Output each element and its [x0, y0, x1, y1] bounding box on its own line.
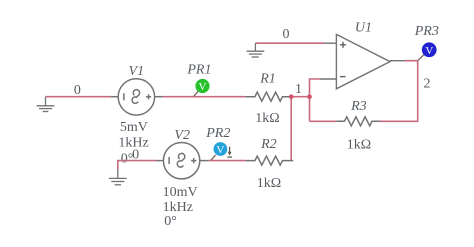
svg-text:1: 1 [295, 82, 302, 97]
svg-text:V: V [199, 81, 207, 93]
wire down to R2 [290, 97, 292, 161]
wire net 0 left: ground to V1 [46, 96, 111, 98]
svg-text:0: 0 [74, 83, 81, 98]
probe PR1 [194, 79, 210, 97]
svg-text:0°: 0° [164, 214, 177, 229]
svg-text:2: 2 [424, 76, 431, 91]
svg-text:1kΩ: 1kΩ [255, 111, 279, 126]
PR2 direction arrow [227, 147, 232, 158]
wire minus input riser and to R3 [310, 79, 337, 121]
resistor R1 [245, 92, 293, 101]
wire V1 to R1 (net 0 overlay label handled) [163, 96, 246, 98]
svg-text:R1: R1 [259, 72, 276, 87]
svg-text:5mV: 5mV [120, 120, 148, 135]
svg-text:0: 0 [132, 147, 139, 162]
ground G2 (op-amp) [247, 43, 265, 57]
probe PR3 [418, 42, 437, 60]
wire output to corner and down to R3 [379, 61, 418, 122]
svg-text:R3: R3 [350, 99, 367, 114]
svg-text:V1: V1 [129, 64, 145, 79]
wire junction row between dots [291, 96, 309, 98]
V1 lead stubs gray [111, 96, 163, 98]
svg-text:1kΩ: 1kΩ [347, 138, 371, 153]
ground G3 [109, 170, 127, 185]
svg-text:V: V [216, 144, 224, 156]
svg-text:10mV: 10mV [163, 185, 198, 200]
probe PR2 [211, 142, 232, 160]
wire net 0 to V2: ground riser and to V2 [118, 161, 156, 170]
op-amp U1 [320, 34, 405, 88]
op-amp minus sign [340, 76, 346, 78]
resistor R2 [245, 156, 293, 165]
wire op-amp ground to plus input [255, 42, 324, 44]
svg-text:V: V [425, 45, 433, 57]
junction dot 2 [307, 94, 312, 99]
svg-text:U1: U1 [355, 21, 372, 36]
svg-text:V2: V2 [174, 128, 190, 143]
wire V2 to R2 [209, 160, 246, 162]
AC source V1 [118, 79, 154, 115]
svg-text:0: 0 [283, 27, 290, 42]
svg-text:R2: R2 [260, 137, 277, 152]
svg-text:PR2: PR2 [205, 126, 230, 141]
op-amp plus sign [340, 42, 346, 48]
svg-text:PR3: PR3 [414, 24, 439, 39]
ground G1 [37, 97, 55, 112]
svg-text:1kΩ: 1kΩ [257, 176, 281, 191]
junction dot 1 [289, 94, 294, 99]
resistor R3 [336, 117, 380, 126]
AC source V2 [156, 143, 209, 179]
svg-text:1kHz: 1kHz [163, 200, 193, 215]
svg-text:PR1: PR1 [186, 62, 211, 77]
